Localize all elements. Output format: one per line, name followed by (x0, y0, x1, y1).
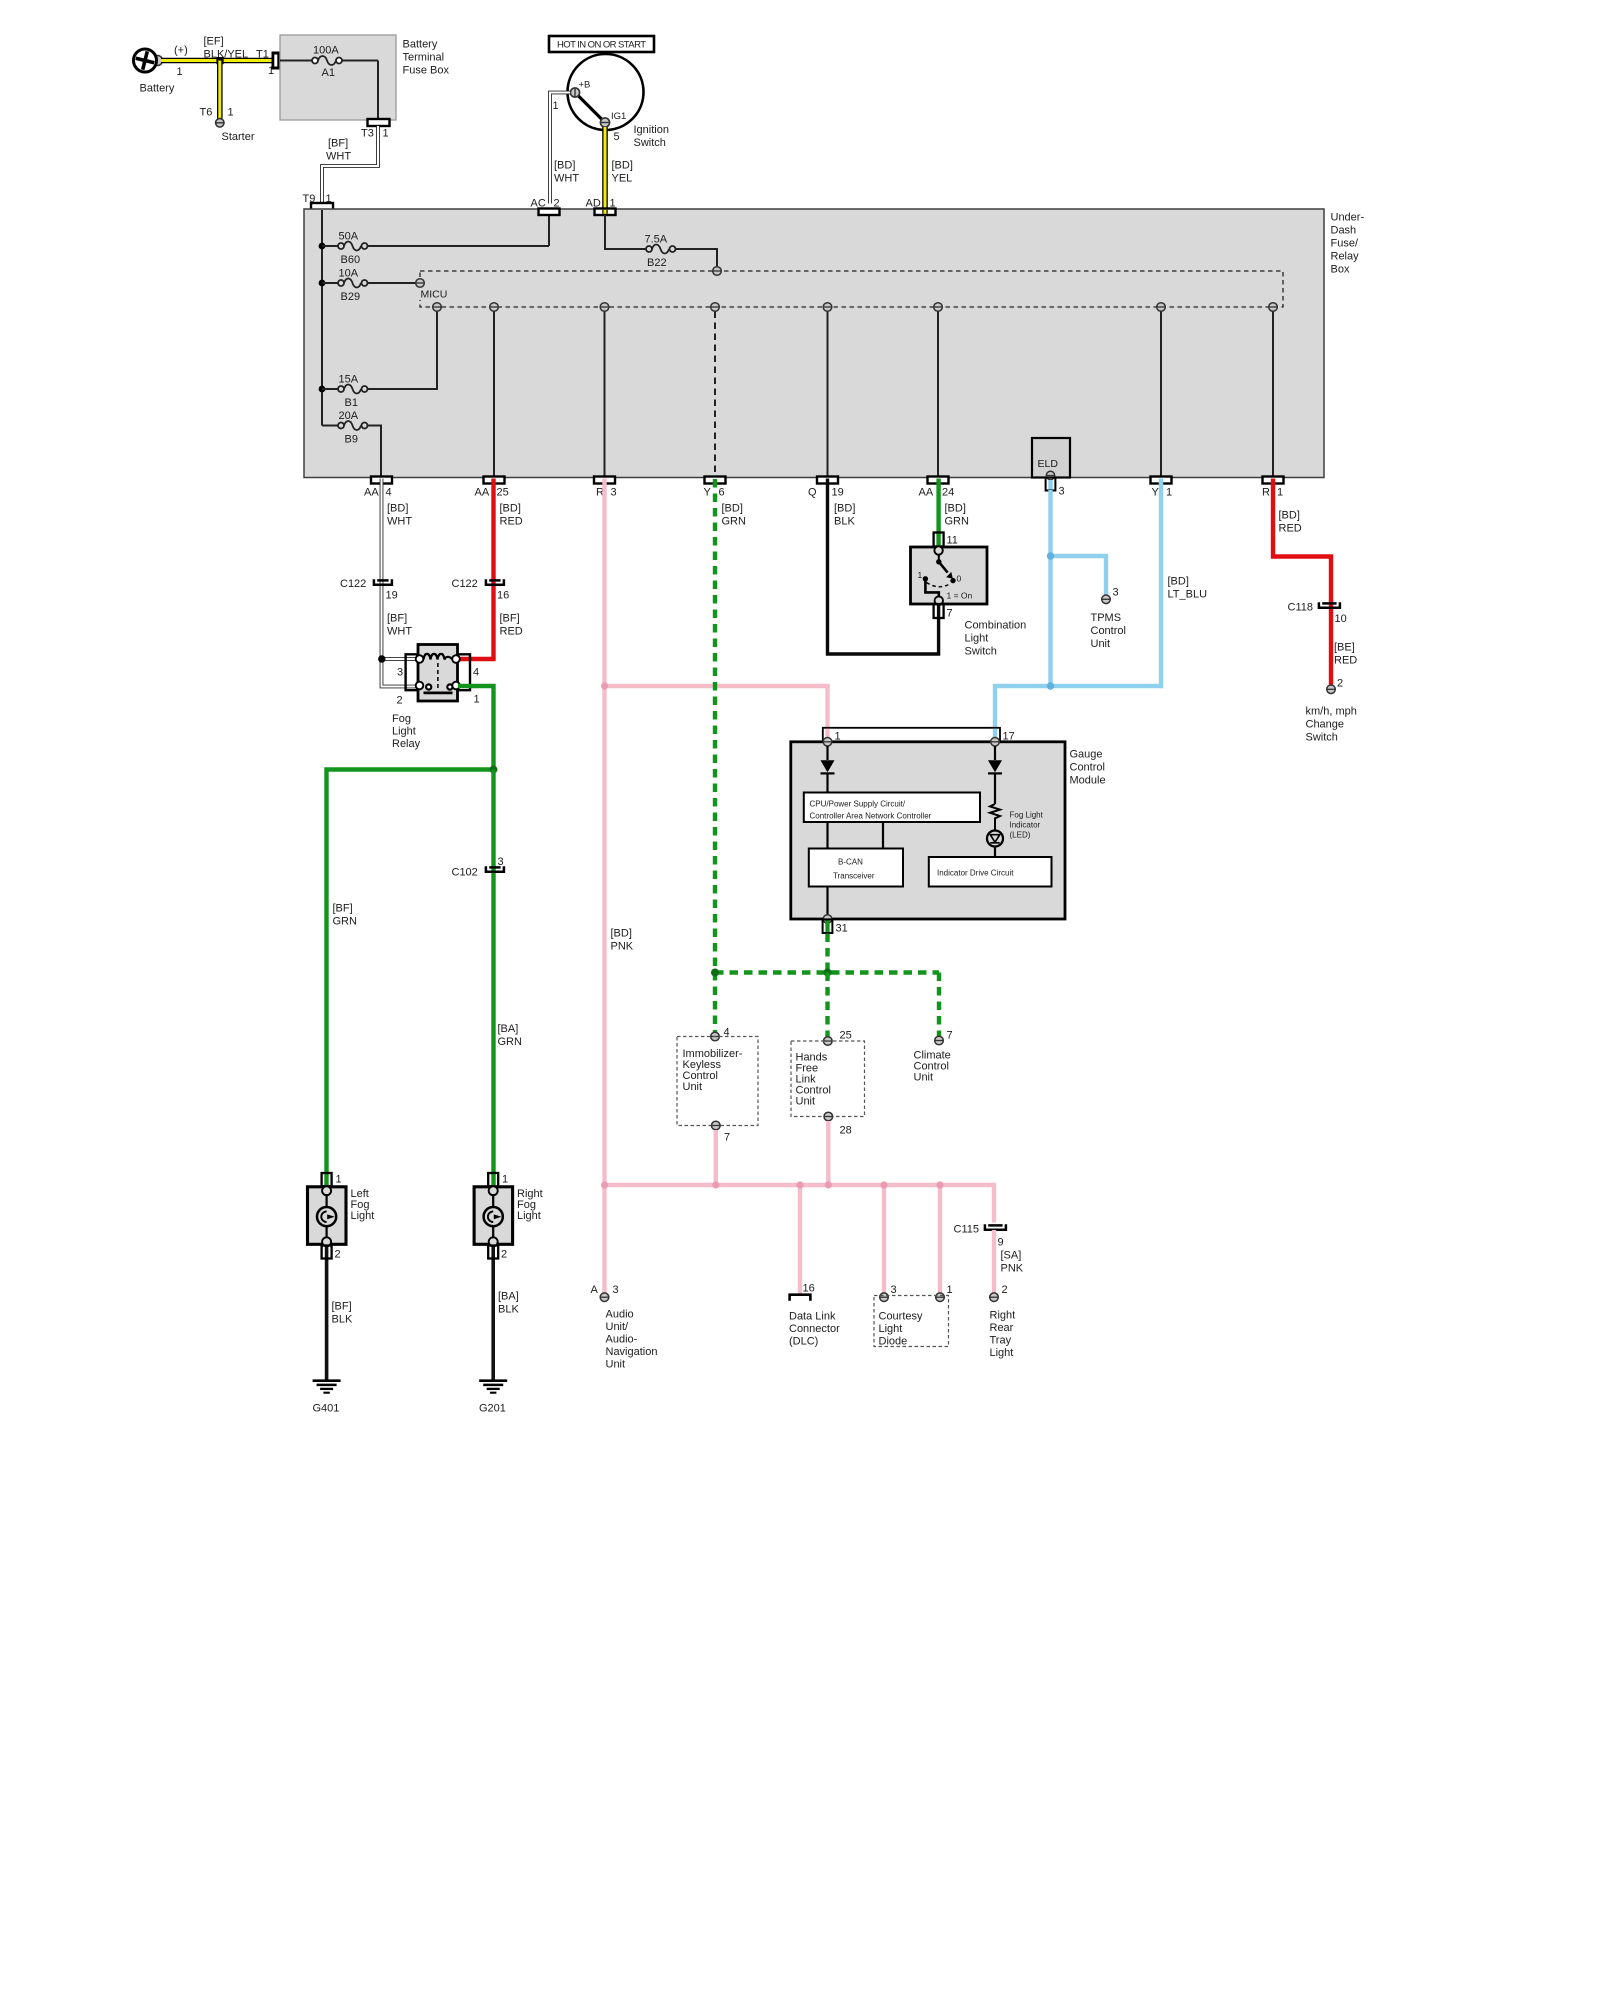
connector C118 10 (1288, 602, 1347, 626)
svg-text:Tray: Tray (990, 1335, 1012, 1347)
svg-text:Control: Control (1070, 762, 1105, 774)
immobilizer terminal 4 (711, 1027, 730, 1041)
svg-text:3: 3 (891, 1284, 897, 1296)
svg-text:Indicator: Indicator (1010, 821, 1041, 830)
wire to starter (217, 61, 223, 119)
svg-text:[BD]: [BD] (387, 503, 408, 515)
battery (133, 49, 156, 72)
svg-text:Fog: Fog (392, 713, 411, 725)
wire ELD to TPMS and gauge (light blue) (1051, 490, 1107, 686)
svg-text:Control: Control (1091, 625, 1126, 637)
svg-text:16: 16 (497, 590, 509, 602)
svg-text:1 = On: 1 = On (947, 591, 973, 601)
label km/h mph Change Switch (1306, 706, 1357, 744)
svg-text:24: 24 (942, 487, 954, 499)
svg-text:Unit: Unit (606, 1359, 626, 1371)
wire AA4 to relay [BD]/[BF] WHT (382, 479, 417, 687)
svg-text:B1: B1 (345, 397, 358, 409)
svg-text:7: 7 (947, 1030, 953, 1042)
MICU terminal Y1 (1157, 303, 1166, 312)
junction B29 (319, 280, 326, 287)
audio unit terminal A 3 (591, 1284, 619, 1301)
wire Q19 to combination switch [BD] BLK (828, 479, 939, 655)
svg-text:BLK: BLK (834, 516, 855, 528)
svg-text:Light: Light (879, 1323, 903, 1335)
right fog light bottom terminal (489, 1237, 498, 1246)
svg-text:5: 5 (614, 131, 620, 143)
svg-text:[BF]: [BF] (387, 613, 407, 625)
svg-text:Light: Light (351, 1210, 375, 1222)
wire MICU to Y6 dashed (714, 312, 716, 477)
svg-text:Under-: Under- (1331, 212, 1365, 224)
label [BF] RED (500, 613, 523, 638)
svg-text:3: 3 (498, 856, 504, 868)
svg-text:Relay: Relay (1331, 251, 1360, 263)
svg-text:Audio: Audio (606, 1309, 634, 1321)
svg-text:G401: G401 (313, 1403, 340, 1415)
svg-text:Unit: Unit (914, 1072, 934, 1084)
svg-text:B29: B29 (341, 291, 361, 303)
svg-text:BLK/YEL: BLK/YEL (204, 49, 249, 61)
svg-text:Connector: Connector (789, 1323, 840, 1335)
immobilizer terminal 7 (712, 1121, 731, 1143)
gauge pin 31 terminal (823, 915, 832, 924)
label [BF] WHT (326, 138, 351, 163)
connector T9 (311, 203, 333, 210)
svg-text:Indicator Drive Circuit: Indicator Drive Circuit (937, 869, 1014, 878)
svg-text:Y: Y (704, 487, 712, 499)
labels relay pins 3 2 4 1 (397, 667, 480, 707)
svg-text:1: 1 (228, 107, 234, 119)
junction green (490, 766, 498, 774)
fuse B1 15A (322, 312, 437, 394)
combination switch internals (918, 546, 973, 605)
wire MICU to Y1 (1160, 312, 1162, 477)
MICU dashed box (420, 271, 1283, 307)
svg-text:50A: 50A (339, 231, 359, 243)
svg-text:C122: C122 (452, 578, 478, 590)
svg-text:RED: RED (1279, 523, 1302, 535)
relay coil (416, 654, 460, 688)
svg-text:GRN: GRN (333, 916, 358, 928)
svg-text:C115: C115 (954, 1224, 979, 1236)
svg-text:HOT IN ON OR START: HOT IN ON OR START (557, 40, 646, 51)
wire fuse A1 to T3 (377, 61, 379, 120)
combination light switch box (911, 547, 988, 604)
svg-text:1: 1 (918, 570, 923, 580)
junction B1 (319, 386, 326, 393)
svg-text:2: 2 (1337, 678, 1343, 690)
label Climate Control Unit (914, 1050, 951, 1084)
svg-text:RED: RED (1334, 655, 1357, 667)
fuse B22 7.5A from AD (605, 215, 717, 266)
left fog light top terminal (322, 1186, 331, 1195)
svg-text:Fuse Box: Fuse Box (403, 65, 450, 77)
svg-text:Controller Area Network Contro: Controller Area Network Controller (810, 812, 932, 821)
svg-text:A: A (591, 1284, 599, 1296)
svg-text:[BF]: [BF] (333, 903, 353, 915)
wire MICU to Q19 (827, 312, 829, 477)
label Courtesy Light Diode (879, 1311, 924, 1348)
dashed green to hands free (825, 973, 829, 1037)
ground G401 (313, 1381, 341, 1415)
label 50A B60 (339, 231, 361, 267)
svg-text:AA: AA (364, 487, 379, 499)
label [BF] GRN (333, 903, 358, 928)
svg-text:9: 9 (998, 1237, 1004, 1249)
wire B-CAN to pin 31 (826, 887, 828, 916)
label 20A B9 (339, 410, 359, 446)
svg-text:ELD: ELD (1038, 458, 1059, 470)
diode D2 (pin 17) (988, 746, 1002, 804)
svg-text:Diode: Diode (879, 1336, 908, 1348)
label [BD] WHT (387, 503, 412, 528)
svg-text:3: 3 (611, 487, 617, 499)
label Audio Unit / Audio-Navigation Unit (606, 1309, 658, 1371)
svg-text:Audio-: Audio- (606, 1334, 638, 1346)
svg-text:RED: RED (500, 516, 523, 528)
svg-text:15A: 15A (339, 374, 359, 386)
svg-text:10A: 10A (339, 268, 359, 280)
svg-text:19: 19 (386, 590, 398, 602)
svg-text:10: 10 (1335, 613, 1347, 625)
connector C122 19 (340, 578, 398, 602)
left fog light housing (308, 1187, 347, 1245)
svg-text:Switch: Switch (965, 646, 997, 658)
svg-text:km/h, mph: km/h, mph (1306, 706, 1357, 718)
junction green dashed at Y6 (711, 969, 719, 977)
svg-text:Right: Right (990, 1310, 1016, 1322)
svg-text:T9: T9 (303, 193, 316, 205)
wire MICU to R3 (604, 312, 606, 477)
wire battery to T1 [EF] BLK/YEL (161, 58, 273, 64)
courtesy light diode box (874, 1296, 949, 1347)
connector ELD 3 (1046, 478, 1065, 498)
connector AD (595, 209, 616, 216)
svg-text:1: 1 (383, 128, 389, 140)
label [BD] GRN (945, 503, 970, 528)
svg-text:4: 4 (473, 667, 479, 679)
wire R1 red to C118 (1273, 479, 1331, 685)
MICU terminal R3 (600, 303, 609, 312)
wire AA25 to relay [BD]/[BF] RED (458, 479, 494, 660)
svg-text:MICU: MICU (421, 289, 448, 301)
svg-text:2: 2 (397, 695, 403, 707)
label 10A B29 (339, 268, 361, 304)
under-dash fuse/relay box (304, 209, 1324, 478)
svg-text:2: 2 (335, 1249, 341, 1261)
dashed green to climate (937, 973, 941, 1037)
svg-text:Battery: Battery (140, 83, 175, 95)
right fog light bulb (484, 1194, 503, 1239)
label Battery (140, 83, 175, 95)
label Immobilizer-Keyless Control Unit (683, 1048, 743, 1093)
svg-text:T3: T3 (361, 128, 374, 140)
svg-text:[BD]: [BD] (611, 928, 632, 940)
battery terminal fuse box (280, 35, 396, 120)
wire Y1 light blue [BD] LT_BLU (995, 479, 1161, 741)
svg-text:GRN: GRN (945, 516, 970, 528)
svg-text:2: 2 (1002, 1284, 1008, 1296)
svg-text:1: 1 (553, 100, 559, 112)
right fog light housing (474, 1187, 512, 1245)
connector C122 16 (452, 578, 510, 602)
svg-text:WHT: WHT (326, 151, 351, 163)
relay switch (416, 682, 460, 693)
B-CAN transceiver box (809, 849, 903, 887)
svg-text:1: 1 (177, 66, 183, 78)
svg-text:Switch: Switch (634, 137, 666, 149)
label [EF] BLK/YEL (204, 36, 249, 61)
gauge control module box (791, 742, 1065, 919)
label Gauge Control Module (1070, 749, 1106, 787)
svg-text:31: 31 (836, 923, 848, 935)
svg-text:B60: B60 (341, 254, 361, 266)
label [BF] WHT (387, 613, 412, 638)
svg-text:Unit/: Unit/ (606, 1321, 630, 1333)
label AC 2 (531, 198, 560, 210)
svg-text:Relay: Relay (392, 738, 421, 750)
svg-text:[BD]: [BD] (1279, 510, 1300, 522)
svg-text:[BD]: [BD] (500, 503, 521, 515)
ground G201 (479, 1381, 507, 1415)
svg-text:[BD]: [BD] (722, 503, 743, 515)
label 7.5A B22 (645, 234, 668, 270)
svg-text:Light: Light (392, 726, 416, 738)
courtesy diode terminal 1 (936, 1284, 953, 1301)
svg-text:Combination: Combination (965, 620, 1027, 632)
left fog light pin 2 connector (322, 1245, 341, 1381)
label T9 1 (303, 193, 332, 205)
MICU terminal AA24 (934, 303, 943, 312)
svg-text:0: 0 (957, 574, 962, 584)
svg-text:7: 7 (947, 608, 953, 620)
wire MICU to R1 (1272, 312, 1274, 477)
svg-text:7.5A: 7.5A (645, 234, 668, 246)
terminal +B (570, 80, 590, 98)
svg-text:AA: AA (475, 487, 490, 499)
svg-text:1: 1 (1166, 487, 1172, 499)
svg-text:[BA]: [BA] (498, 1023, 519, 1035)
svg-text:Light: Light (990, 1347, 1014, 1359)
CPU / CAN controller box (804, 793, 980, 823)
svg-text:100A: 100A (313, 45, 339, 57)
wire AA24 green [BD] GRN (936, 479, 940, 549)
gauge pin 17 terminal (991, 738, 1000, 747)
gauge module pin strip (823, 728, 1015, 743)
wire T3 to T9 [BF] WHT (322, 126, 378, 203)
svg-text:[BD]: [BD] (1168, 576, 1189, 588)
svg-text:BLK: BLK (332, 1314, 353, 1326)
left fog light bottom terminal (322, 1237, 331, 1246)
label [BD] RED (1279, 510, 1302, 535)
label [SA] PNK (1001, 1250, 1024, 1275)
svg-text:2: 2 (554, 198, 560, 210)
svg-text:Ignition: Ignition (634, 124, 669, 136)
svg-text:AD: AD (586, 198, 601, 210)
indicator drive circuit box (929, 857, 1052, 887)
svg-text:[SA]: [SA] (1001, 1250, 1022, 1262)
svg-text:7: 7 (724, 1132, 730, 1144)
svg-text:C102: C102 (452, 867, 478, 879)
svg-text:PNK: PNK (611, 941, 634, 953)
left fog light bulb (317, 1194, 336, 1239)
immobilizer-keyless control unit box (677, 1037, 758, 1126)
label [BD] YEL (612, 160, 633, 185)
MICU terminal Y6 (711, 303, 720, 312)
MICU terminal to 15A (433, 303, 442, 312)
svg-text:AC: AC (531, 198, 546, 210)
connector AA24 (928, 477, 949, 484)
connector C115 9 (954, 1224, 1006, 1249)
label [BD] WHT wire AC (554, 160, 579, 185)
wire Y6 dashed green [BD] GRN (713, 479, 717, 1032)
pink bus horizontal (605, 1185, 995, 1223)
label Q 19 (808, 487, 844, 499)
connector AC (539, 209, 560, 216)
MICU terminal from 7.5A (713, 267, 722, 276)
svg-text:Light: Light (517, 1210, 541, 1222)
TPMS terminal 3 (1102, 587, 1119, 604)
wire green branch to left fog light [BF] GRN (327, 770, 494, 1187)
svg-text:Change: Change (1306, 719, 1345, 731)
svg-text:16: 16 (803, 1283, 815, 1295)
svg-text:6: 6 (719, 487, 725, 499)
starter terminal (216, 119, 224, 127)
climate terminal 7 (935, 1030, 953, 1045)
dashed green bus horizontal (715, 970, 939, 974)
svg-text:Light: Light (965, 633, 989, 645)
hands free link control unit box (791, 1041, 865, 1117)
diode D1 (pin 1) (821, 746, 835, 793)
label Hands Free Link Control Unit (796, 1052, 831, 1108)
svg-text:Courtesy: Courtesy (879, 1311, 924, 1323)
label T1 1 (256, 49, 274, 78)
svg-text:3: 3 (397, 667, 403, 679)
wire immobilizer 7 pink down (714, 1130, 718, 1185)
connector Q19 (817, 477, 838, 484)
label Ignition Switch (634, 124, 669, 149)
junction green dashed at pin31 (824, 969, 832, 977)
svg-text:WHT: WHT (387, 626, 412, 638)
svg-text:GRN: GRN (722, 516, 747, 528)
svg-text:Rear: Rear (990, 1322, 1014, 1334)
MICU terminal AA25 (490, 303, 499, 312)
label T6 1 Starter (200, 107, 255, 144)
left fog light pin 1 connector (322, 1173, 342, 1186)
label Left Fog Light (351, 1188, 375, 1222)
fuse B60 50A (322, 242, 549, 251)
label Fog Light Indicator (LED) (1010, 811, 1044, 840)
svg-text:A1: A1 (322, 67, 335, 79)
wire IG1 to AD [BD] YEL (602, 127, 608, 208)
svg-text:3: 3 (1113, 587, 1119, 599)
svg-text:[BD]: [BD] (945, 503, 966, 515)
resistor (fog light indicator) (990, 804, 1000, 830)
svg-text:11: 11 (947, 535, 958, 547)
label 5 (614, 131, 620, 143)
svg-text:T1: T1 (256, 49, 269, 61)
ELD box (1032, 438, 1070, 478)
wire R3 pink [BD] PNK (602, 479, 606, 1293)
svg-text:PNK: PNK (1001, 1263, 1024, 1275)
connector AA4 (371, 477, 392, 484)
svg-text:G201: G201 (479, 1403, 506, 1415)
label Combination Light Switch (965, 620, 1027, 658)
svg-text:[BF]: [BF] (500, 613, 520, 625)
label [BA] BLK (498, 1291, 519, 1316)
svg-text:Battery: Battery (403, 39, 438, 51)
svg-text:20A: 20A (339, 410, 359, 422)
pink junctions (601, 1181, 944, 1188)
MICU terminal Q19 (823, 303, 832, 312)
label Right Rear Tray Light (990, 1310, 1016, 1360)
wire MICU to AA24 (937, 312, 939, 477)
svg-text:Switch: Switch (1306, 732, 1338, 744)
ignition switch body (568, 54, 644, 130)
junction battery/starter (216, 57, 223, 64)
svg-text:[EF]: [EF] (204, 36, 224, 48)
svg-text:1: 1 (1277, 487, 1283, 499)
fuse B29 10A (322, 279, 416, 288)
svg-text:[BD]: [BD] (612, 160, 633, 172)
svg-text:Module: Module (1070, 775, 1106, 787)
svg-text:25: 25 (497, 487, 509, 499)
svg-text:Navigation: Navigation (606, 1346, 658, 1358)
label AA 4 (364, 487, 392, 499)
svg-text:[BF]: [BF] (328, 138, 348, 150)
svg-text:(LED): (LED) (1010, 831, 1031, 840)
svg-text:Terminal: Terminal (403, 52, 445, 64)
svg-text:Fog Light: Fog Light (1010, 811, 1044, 820)
svg-text:TPMS: TPMS (1091, 612, 1122, 624)
connector AA25 (484, 477, 505, 484)
relay bracket left (406, 654, 418, 690)
svg-text:(+): (+) (174, 45, 188, 57)
svg-text:B22: B22 (647, 257, 667, 269)
wire MICU to AA25 (493, 312, 495, 477)
svg-text:Gauge: Gauge (1070, 749, 1103, 761)
combination switch pin 11 connector (934, 533, 958, 547)
connector Y1 (1151, 477, 1172, 484)
courtesy diode terminal 3 (880, 1284, 897, 1301)
relay bracket right (458, 654, 470, 690)
svg-text:WHT: WHT (554, 173, 579, 185)
svg-text:[BE]: [BE] (1334, 642, 1355, 654)
label MICU (418, 287, 451, 301)
wire +B to AC [BD] WHT (550, 93, 570, 204)
svg-text:2: 2 (501, 1249, 507, 1261)
label 15A B1 (339, 374, 359, 410)
label R 1 (1262, 487, 1283, 499)
svg-text:[BF]: [BF] (332, 1301, 352, 1313)
label 100A A1 (313, 45, 339, 80)
gauge pin 1 terminal (823, 738, 832, 747)
svg-text:25: 25 (840, 1030, 852, 1042)
label Data Link Connector (DLC) (789, 1311, 840, 1348)
connector R1 (1263, 477, 1284, 484)
label AD 1 (586, 198, 616, 210)
svg-text:CPU/Power Supply Circuit/: CPU/Power Supply Circuit/ (810, 800, 906, 809)
svg-text:Y: Y (1152, 487, 1160, 499)
label Y 1 (1152, 487, 1173, 499)
wire pink to courtesy diode 3 (882, 1185, 886, 1293)
svg-text:Unit: Unit (683, 1081, 703, 1093)
svg-text:T6: T6 (200, 107, 213, 119)
fog light relay box (418, 645, 458, 702)
label AA 25 (475, 487, 509, 499)
svg-text:B9: B9 (345, 434, 358, 446)
